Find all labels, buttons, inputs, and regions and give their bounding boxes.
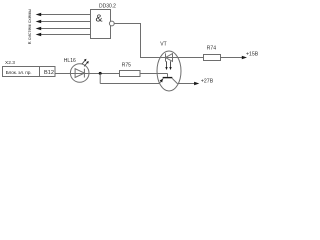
svg-text:+27В: +27В — [201, 79, 214, 85]
svg-text:DD30.2: DD30.2 — [99, 4, 116, 10]
svg-text:Х2.3: Х2.3 — [5, 60, 15, 66]
svg-text:Блок. эл. пр.: Блок. эл. пр. — [6, 70, 32, 76]
svg-text:К систем схемы: К систем схемы — [27, 8, 33, 44]
svg-text:R74: R74 — [207, 46, 216, 52]
svg-text:VT: VT — [160, 42, 166, 48]
svg-text:R75: R75 — [122, 62, 131, 68]
svg-text:HL16: HL16 — [64, 58, 76, 64]
svg-text:&: & — [95, 13, 102, 25]
svg-text:В12: В12 — [44, 70, 54, 76]
svg-text:+15В: +15В — [246, 51, 259, 57]
